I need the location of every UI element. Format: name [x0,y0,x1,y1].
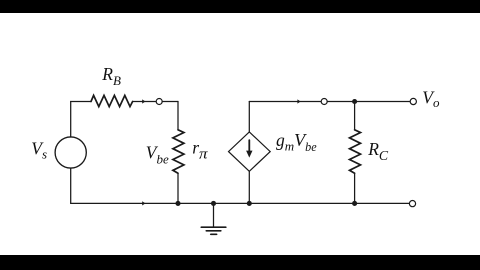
resistor R_B (zigzag) [91,95,133,106]
open circle node (collector terminal) [321,99,327,105]
wire: left vertical bottom (source bottom to bottom rail) [70,168,72,203]
resistor R_C (zigzag) [350,130,361,173]
node dot at dependent source bottom [247,201,252,206]
open terminal circle bottom right [409,201,415,207]
open circle node (base terminal) [156,99,162,105]
ground stub wire [213,203,215,227]
svg-text:RC: RC [367,139,389,164]
wire: top-left rail from left corner to R_B [71,101,91,103]
wire: left vertical top (source top to top rail) [70,102,72,138]
wire: diamond bottom to bottom rail [248,171,250,203]
arrow inside dependent source [248,140,250,153]
svg-text:Vs: Vs [31,138,47,161]
svg-text:Vbe: Vbe [146,142,169,166]
wire: R_C to bottom rail [354,173,356,203]
wire: open circle to V_o terminal [327,101,410,103]
ground symbol [201,227,226,234]
wire: bottom rail to right open terminal [355,202,410,204]
wire: r_pi branch vertical down to zigzag [177,102,179,130]
bottom rail wire [71,202,355,204]
arrowhead marker on top-right wire [297,99,300,103]
top right rail: diamond to open circle [249,101,321,103]
arrowhead marker on bottom rail [142,201,145,205]
resistor r_pi (zigzag) [173,130,184,173]
node dot at R_C bottom [352,201,357,206]
bottom letterbox bar [0,255,480,270]
voltage source V_s circle [55,137,86,168]
wire: diamond top to top rail [248,102,250,132]
svg-text:Vo: Vo [422,87,440,110]
wire: R_B to open circle [133,101,157,103]
top letterbox bar [0,0,480,13]
wire: open circle to r_pi corner [162,101,178,103]
svg-text:gmVbe: gmVbe [276,130,317,154]
wire: R_C branch top vertical [354,102,356,130]
open terminal circle V_o [410,98,416,104]
node dot at R_C top [352,99,357,104]
arrowhead marker on top-left wire [142,99,145,103]
svg-text:RB: RB [101,64,121,88]
node dot at r_pi bottom [175,201,180,206]
wire: r_pi to bottom rail [177,173,179,203]
svg-text:rπ: rπ [192,137,208,162]
dependent current source diamond U1 [229,132,271,171]
node dot at ground stub [211,201,216,206]
